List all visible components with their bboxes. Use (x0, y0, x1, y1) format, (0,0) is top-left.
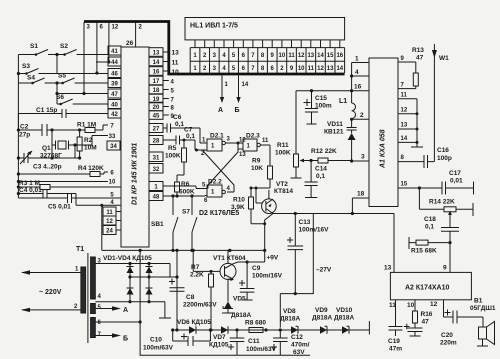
svg-text:~ 220V: ~ 220V (39, 289, 62, 296)
capacitor C7 0,1 on pin 28 (163, 127, 195, 145)
svg-text:26: 26 (126, 40, 134, 47)
wire VT1 emitter +9V (238, 250, 279, 264)
svg-text:R7: R7 (191, 264, 200, 271)
svg-text:39: 39 (111, 82, 118, 88)
display pin 1 drop to A (218, 76, 229, 115)
svg-text:16: 16 (153, 70, 160, 76)
wire VT2 collector down (263, 214, 273, 250)
svg-text:12: 12 (298, 53, 305, 59)
svg-text:2.2K: 2.2K (190, 272, 204, 279)
bus drop 2 / pin 26 (126, 22, 143, 47)
capacitor C9 100m/16V (239, 262, 283, 300)
wire to A2 pin 9 (443, 243, 450, 273)
svg-text:R14 22K: R14 22K (429, 199, 455, 206)
svg-text:40: 40 (111, 103, 118, 109)
T1 secondary winding 6-7 (91, 318, 102, 339)
wire C7 to gate input 2 (195, 140, 207, 152)
svg-text:VD5: VD5 (233, 296, 246, 303)
svg-text:27p: 27p (19, 132, 30, 139)
svg-text:C19: C19 (388, 338, 400, 345)
svg-text:13: 13 (153, 51, 160, 57)
svg-text:12: 12 (112, 25, 119, 31)
switch S5 (57, 73, 108, 85)
svg-text:470m/: 470m/ (291, 342, 310, 349)
svg-text:41: 41 (111, 49, 118, 55)
svg-text:05ГДШ1: 05ГДШ1 (470, 305, 496, 312)
svg-text:11: 11 (308, 66, 315, 72)
transistor VT1 KT604 (213, 250, 246, 281)
net labels 13 11 10 right of bus (172, 50, 180, 77)
svg-text:VD11: VD11 (327, 121, 343, 128)
inductor L1 (339, 91, 356, 120)
switch S6 (55, 92, 108, 105)
svg-text:R10: R10 (233, 197, 245, 204)
capacitor C20 220m on pin 12 (430, 300, 483, 347)
capacitor C10 100m/63V (143, 328, 210, 351)
capacitor C11 100m/63V (228, 330, 277, 355)
svg-text:14: 14 (317, 53, 324, 59)
pushbutton SB1 (151, 196, 178, 252)
A1 pin 2 wire (350, 112, 369, 121)
svg-text:VD1-VD4 КД105: VD1-VD4 КД105 (103, 255, 152, 262)
diode VD7 KD105 (209, 326, 229, 348)
svg-text:14: 14 (153, 60, 160, 66)
gate D2.2 (202, 179, 231, 205)
T1 secondary winding 5 (91, 304, 102, 314)
net labels 4 5 7 8 9 (171, 80, 175, 121)
svg-text:C16: C16 (437, 147, 449, 154)
svg-text:C12: C12 (291, 334, 303, 341)
svg-text:10: 10 (109, 180, 116, 186)
capacitor C12 470m/63V (271, 330, 310, 356)
switch S2 (55, 43, 108, 56)
svg-text:27: 27 (153, 127, 160, 133)
svg-text:S2: S2 (60, 43, 68, 50)
diode VD4 (146, 288, 153, 295)
cross-coupling wires (204, 149, 238, 192)
svg-text:R13: R13 (412, 47, 424, 54)
svg-text:45: 45 (153, 114, 160, 120)
svg-text:–27V: –27V (316, 267, 332, 274)
T1 primary winding (21, 267, 86, 314)
resistor R5 100K (165, 139, 187, 183)
amplifier IC A2 K174XA10 (390, 272, 471, 299)
switch S1 (18, 43, 57, 56)
wire winding 7 to B arrow (95, 333, 128, 342)
svg-text:11: 11 (401, 93, 408, 99)
svg-text:12: 12 (430, 301, 438, 308)
capacitor C15 100m (296, 89, 352, 124)
capacitor under R16 (404, 323, 423, 336)
svg-text:C6: C6 (173, 114, 182, 121)
svg-text:0,01: 0,01 (450, 178, 463, 185)
svg-text:SB1: SB1 (151, 221, 164, 228)
capacitor C2 27p (18, 124, 52, 139)
svg-text:14: 14 (336, 66, 343, 72)
capacitor C13 100m/16V (287, 214, 329, 294)
svg-text:Д818А: Д818А (334, 315, 354, 322)
svg-text:63V: 63V (293, 349, 305, 356)
resistor R12 22K (308, 148, 352, 163)
svg-text:10: 10 (298, 66, 305, 72)
wire pin 10 row (17, 180, 108, 183)
svg-text:11: 11 (172, 60, 179, 67)
svg-text:S6: S6 (56, 94, 64, 101)
svg-text:+9V: +9V (267, 255, 279, 262)
svg-text:28: 28 (153, 139, 160, 145)
svg-text:А2 К174ХА10: А2 К174ХА10 (405, 285, 449, 292)
wire -27V row from VT2 emitter (273, 212, 394, 273)
svg-text:КД105: КД105 (209, 342, 229, 349)
svg-text:100m/16V: 100m/16V (299, 227, 330, 234)
trimmer resistor R14 22K (419, 188, 473, 221)
quartz Q1 32768 (40, 128, 75, 159)
wire pin 33 (73, 136, 108, 147)
svg-text:0,1: 0,1 (425, 224, 434, 231)
left rail (17, 55, 20, 199)
svg-text:VT1 КТ604: VT1 КТ604 (213, 255, 246, 262)
D1 right pin boxes 27 28 31 32 1 48 (149, 124, 163, 201)
svg-text:33: 33 (109, 134, 116, 140)
svg-text:12: 12 (317, 66, 324, 72)
bus drop 6 (95, 22, 103, 75)
label D2 K176LE5 (199, 210, 239, 217)
svg-text:220m: 220m (440, 340, 457, 347)
svg-text:VD8: VD8 (283, 308, 296, 315)
svg-text:W1: W1 (439, 55, 449, 62)
wire A1 pin 18 (352, 191, 369, 214)
svg-text:2200m/63V: 2200m/63V (183, 302, 217, 309)
svg-text:11: 11 (106, 210, 113, 216)
svg-text:R12 22K: R12 22K (311, 148, 337, 155)
svg-text:Б: Б (235, 107, 240, 114)
svg-text:А1 КХА 058: А1 КХА 058 (380, 129, 387, 169)
svg-text:VD6 КД105: VD6 КД105 (177, 319, 211, 326)
resistor R13 47 (398, 47, 424, 89)
svg-text:44: 44 (111, 60, 118, 66)
svg-text:2: 2 (360, 112, 364, 119)
svg-text:100m/16V: 100m/16V (252, 273, 283, 280)
svg-text:13: 13 (384, 265, 392, 272)
radio IC A1 KXA058 (369, 58, 398, 207)
resistor R10 3,9K (231, 187, 270, 224)
capacitor C6 0,1 on pin 27 (163, 114, 200, 133)
svg-text:R6: R6 (181, 181, 190, 188)
zener VD10 D818A (334, 307, 354, 334)
svg-text:T1: T1 (76, 246, 84, 253)
svg-text:Q1: Q1 (42, 145, 51, 152)
svg-text:C15: C15 (315, 95, 327, 102)
display pin grid (190, 40, 344, 73)
svg-text:13: 13 (401, 123, 408, 129)
transistor VT2 KT814 (255, 181, 294, 214)
display HL1 ИВЛ 1-7/5 (185, 18, 345, 40)
svg-text:13: 13 (307, 53, 314, 59)
svg-text:100K: 100K (165, 153, 181, 160)
svg-text:34: 34 (110, 144, 117, 150)
zener VD9 D818A (312, 307, 332, 334)
wire D1 pin 48 to gate input 6 (163, 194, 207, 197)
svg-text:Д818А: Д818А (312, 315, 332, 322)
svg-text:S5: S5 (58, 73, 66, 80)
capacitor C8 2200m/63V (169, 279, 217, 309)
svg-text:C5 0,01: C5 0,01 (48, 204, 71, 211)
svg-text:D2.2: D2.2 (208, 179, 222, 186)
svg-text:31: 31 (153, 156, 160, 162)
svg-text:R2: R2 (84, 137, 93, 144)
capacitor C14 0,1 (305, 161, 328, 198)
svg-text:13: 13 (327, 66, 334, 72)
svg-text:0,1: 0,1 (316, 173, 325, 180)
svg-text:Б: Б (123, 336, 128, 343)
svg-text:C9: C9 (252, 265, 261, 272)
svg-text:C8: C8 (186, 294, 195, 301)
switch S7 (182, 196, 197, 252)
svg-text:100m/63V: 100m/63V (143, 345, 174, 352)
capacitor C4 0,01 (18, 187, 121, 205)
svg-text:18: 18 (153, 88, 160, 94)
capacitor C1 15p row 42 (18, 107, 108, 130)
svg-text:R15 68K: R15 68K (411, 248, 437, 255)
bus drop 3 (82, 22, 90, 95)
svg-text:47: 47 (416, 55, 424, 62)
A1 pins 11 12 13 14 chain to ground (398, 93, 423, 148)
heater/negative supply row (173, 321, 370, 335)
svg-text:R3 1 M: R3 1 M (19, 180, 40, 187)
resistor R8 680 (245, 320, 266, 333)
svg-text:48: 48 (153, 195, 160, 201)
svg-text:11: 11 (262, 138, 269, 144)
svg-text:R1 1M: R1 1M (77, 122, 96, 129)
svg-text:42: 42 (111, 112, 118, 118)
wire -27V branch (280, 214, 332, 328)
transformer T1 (76, 246, 88, 343)
svg-text:S7: S7 (182, 209, 190, 216)
svg-text:Д818А: Д818А (231, 312, 251, 319)
svg-text:15: 15 (401, 182, 408, 188)
svg-text:10: 10 (172, 69, 180, 76)
capacitor C18 0,1 (424, 216, 459, 243)
svg-text:3: 3 (361, 154, 365, 161)
svg-text:C20: C20 (441, 332, 453, 339)
svg-text:R11: R11 (277, 142, 289, 149)
resistor R6 600K (175, 181, 195, 198)
antenna W1 (432, 44, 449, 162)
svg-text:C3 4..20p: C3 4..20p (33, 164, 62, 171)
wire row 44 (96, 61, 109, 63)
D1 left pin boxes 41 44 46 39 47 40 42 (108, 46, 121, 118)
svg-text:10: 10 (407, 302, 415, 309)
resistor R2 10M (75, 128, 97, 158)
resistor R3 1M (18, 180, 121, 190)
wire S4/S5 junction down to row 47 (55, 81, 108, 93)
svg-text:VT2: VT2 (276, 181, 288, 188)
IC D1 KR145IK1901 (121, 47, 149, 247)
svg-text:10K: 10K (251, 165, 263, 172)
svg-text:D2 К176ЛЕ5: D2 К176ЛЕ5 (199, 210, 239, 217)
svg-text:18: 18 (357, 191, 365, 198)
D1 left pin boxes 11 12 24 (103, 207, 121, 235)
A2 pin 13 label (384, 265, 392, 272)
svg-text:D2.1: D2.1 (210, 133, 224, 140)
svg-text:Д818А: Д818А (280, 316, 300, 323)
D1 right pin boxes 13 14 16 17 18 19 20 45 (149, 48, 163, 120)
speaker B1 05GDSh1 (470, 298, 496, 347)
svg-text:C4 0,01: C4 0,01 (19, 187, 42, 194)
svg-text:0,1: 0,1 (186, 133, 195, 140)
zener VD5 D818A (222, 279, 251, 319)
svg-text:4: 4 (355, 69, 359, 76)
svg-text:12: 12 (401, 108, 408, 114)
svg-text:46: 46 (111, 72, 118, 78)
resistor R1 1M (52, 122, 108, 133)
diode VD1 (127, 267, 134, 274)
wires D1 right pins to bus (163, 52, 169, 115)
svg-text:16: 16 (336, 53, 343, 59)
svg-text:C17: C17 (449, 170, 461, 177)
T1 secondary winding 3-4 (91, 257, 102, 300)
svg-text:А: А (218, 107, 223, 114)
svg-text:14: 14 (401, 136, 408, 142)
svg-text:R4 120K: R4 120K (78, 165, 104, 172)
svg-text:3,9K: 3,9K (231, 204, 245, 211)
capacitor C17 0,01 on pin 15 (398, 170, 474, 195)
main supply rail (102, 249, 267, 252)
A1 pin 3 wire (352, 154, 369, 162)
svg-text:12: 12 (106, 219, 113, 225)
switch S3 (18, 63, 108, 75)
svg-text:47m: 47m (389, 346, 402, 353)
svg-text:14: 14 (242, 82, 249, 88)
capacitor C19 47m on pin 11 (388, 300, 403, 353)
svg-text:C18: C18 (424, 216, 436, 223)
svg-text:32: 32 (153, 167, 160, 173)
resistor R4 120K (18, 165, 108, 177)
wire C6 to gate input 1 (200, 128, 207, 143)
A1 left pins vertical (350, 56, 369, 93)
svg-text:КВ121: КВ121 (324, 129, 344, 136)
svg-text:13: 13 (239, 152, 246, 158)
svg-text:D2.3: D2.3 (246, 133, 260, 140)
wire winding 5 to A arrow (95, 306, 128, 314)
zener VD8 D818A (280, 308, 300, 334)
svg-text:VD10: VD10 (336, 307, 353, 314)
resistor R7 2,2K (190, 250, 220, 331)
svg-text:VD7: VD7 (213, 334, 226, 341)
ground distribution wire (139, 249, 311, 355)
gate D2.1 (201, 133, 225, 158)
display pin 14 drop to Б (235, 76, 249, 115)
svg-text:12: 12 (239, 138, 246, 144)
svg-text:HL1 ИВЛ 1-7/5: HL1 ИВЛ 1-7/5 (190, 23, 238, 30)
svg-text:24: 24 (106, 229, 113, 235)
trimmer capacitor C3 4..20p (18, 145, 81, 171)
resistor R16 47 on pin 10 (407, 300, 433, 326)
wire D1 pin 1 to gate input 5 (163, 186, 207, 189)
svg-text:S3: S3 (22, 63, 30, 70)
svg-text:16: 16 (354, 84, 362, 91)
svg-text:600K: 600K (179, 189, 195, 196)
gate D2.1 output wire pin 3 (225, 137, 243, 150)
svg-text:10: 10 (279, 53, 286, 59)
svg-text:47: 47 (422, 319, 430, 326)
resistor R9 10K (251, 145, 273, 188)
svg-text:R9: R9 (252, 158, 261, 165)
diode VD2 (146, 267, 153, 274)
svg-text:R5: R5 (168, 145, 177, 152)
svg-text:C11: C11 (248, 338, 260, 345)
svg-text:100K: 100K (275, 150, 291, 157)
svg-text:15: 15 (327, 53, 334, 59)
svg-text:А: А (123, 307, 128, 314)
svg-text:C10: C10 (150, 337, 162, 344)
svg-text:C13: C13 (299, 219, 311, 226)
D1 left pins 7 33 34 6 10 5 4 (107, 124, 120, 206)
gate D2.3 (239, 133, 269, 159)
diode VD6 KD105 (177, 319, 211, 334)
svg-text:1: 1 (355, 56, 359, 63)
svg-text:47: 47 (111, 92, 118, 98)
svg-text:C1 15p: C1 15p (36, 107, 57, 114)
svg-text:10M: 10M (84, 145, 97, 152)
svg-text:C2: C2 (20, 124, 29, 131)
svg-text:S1: S1 (30, 43, 38, 50)
svg-text:13: 13 (172, 50, 180, 57)
svg-text:В1: В1 (474, 298, 483, 305)
potentiometer R11 100K (275, 91, 308, 178)
wire bridge output to rail drop (170, 250, 179, 331)
diode bridge VD1-VD4 KD105 (95, 255, 170, 303)
capacitor C5 0,01 (18, 193, 121, 250)
svg-text:11: 11 (389, 302, 396, 309)
svg-text:100m: 100m (315, 103, 332, 110)
svg-text:0,1: 0,1 (175, 121, 184, 128)
wire S1 junction down (56, 55, 58, 74)
resistor R15 68K (409, 237, 452, 255)
svg-text:C14: C14 (315, 166, 327, 173)
capacitor C16 100p on pin 8 (398, 147, 452, 168)
wire winding 6 to ground wire (95, 321, 140, 323)
svg-text:L1: L1 (339, 98, 347, 105)
svg-text:9: 9 (443, 265, 447, 272)
svg-text:VD9: VD9 (315, 307, 328, 314)
top bus wire (84, 22, 345, 75)
bus drop 12 (107, 22, 119, 64)
switch S4 (18, 75, 57, 85)
svg-text:17: 17 (153, 79, 160, 85)
svg-text:S4: S4 (27, 75, 35, 82)
svg-text:100p: 100p (437, 155, 452, 162)
svg-text:R16: R16 (421, 311, 433, 318)
varicap VD11 KB121 (324, 119, 357, 162)
svg-text:11: 11 (288, 53, 295, 59)
svg-text:КТ814: КТ814 (274, 188, 293, 195)
ground of bridge (159, 302, 171, 318)
svg-text:R8 680: R8 680 (245, 320, 266, 327)
svg-text:D1 КР 145 ИК 1901: D1 КР 145 ИК 1901 (132, 143, 139, 205)
diode VD3 (127, 288, 134, 295)
